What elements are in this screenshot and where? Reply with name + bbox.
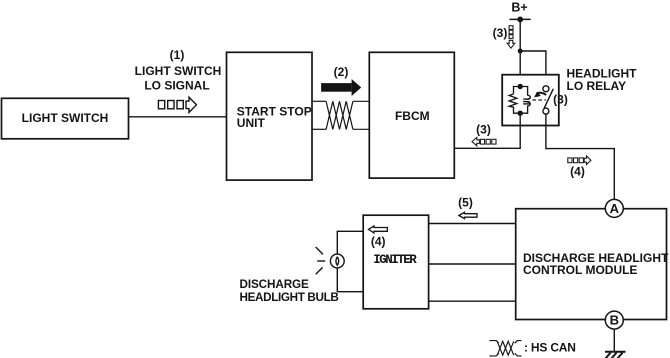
svg-text:B: B	[610, 313, 619, 328]
wire: relay switch to terminal A	[546, 114, 614, 200]
relay switch contacts	[543, 86, 553, 114]
relay coil node top	[518, 84, 523, 89]
wire: module to igniter (bottom)	[429, 300, 516, 302]
ground	[605, 352, 626, 358]
signal symbol (3) left: open arrow + squares	[472, 137, 496, 145]
svg-text:(2): (2)	[334, 65, 349, 79]
svg-text:UNIT: UNIT	[237, 116, 266, 130]
svg-text:DISCHARGE: DISCHARGE	[240, 278, 310, 291]
svg-text:LO RELAY: LO RELAY	[567, 79, 627, 93]
arrow (5) left outline	[459, 212, 477, 218]
light switch box	[2, 98, 129, 139]
svg-text:LO SIGNAL: LO SIGNAL	[144, 79, 209, 93]
wire: light switch to start stop unit	[129, 116, 227, 118]
svg-text:A: A	[610, 201, 620, 216]
relay coil node bottom	[518, 111, 523, 116]
svg-text:(4): (4)	[371, 235, 386, 249]
junction dot	[518, 49, 523, 54]
svg-text:(3): (3)	[493, 26, 508, 40]
label HEADLIGHT LO RELAY	[567, 67, 638, 93]
svg-text:IGNITER: IGNITER	[373, 253, 417, 267]
wire: bulb to igniter (bottom)	[337, 268, 363, 292]
legend: HS CAN twisted pair symbol	[489, 341, 521, 356]
svg-text:LIGHT SWITCH: LIGHT SWITCH	[135, 64, 222, 78]
svg-text:HEADLIGHT BULB: HEADLIGHT BULB	[240, 291, 339, 304]
signal symbol (1): squares + right open arrow	[158, 97, 196, 112]
svg-text:FBCM: FBCM	[395, 109, 430, 123]
igniter box	[363, 215, 428, 309]
svg-text:(1): (1)	[170, 48, 185, 62]
terminal B	[605, 311, 623, 329]
svg-text:(5): (5)	[458, 196, 473, 210]
HS CAN twisted pair: start stop unit to FBCM	[312, 101, 369, 129]
wire: B+ down to relay coil	[519, 19, 521, 86]
svg-text:CONTROL MODULE: CONTROL MODULE	[523, 263, 637, 277]
start stop unit box	[227, 52, 313, 180]
relay box	[502, 75, 559, 126]
terminal A	[605, 199, 623, 217]
relay coil-switch dashed link	[533, 99, 547, 101]
wire: relay coil to FBCM	[454, 113, 520, 148]
arrow (4) inside igniter	[369, 226, 388, 233]
arrow (2) thick black	[321, 79, 361, 96]
FBCM box	[369, 52, 454, 178]
label DISCHARGE HEADLIGHT BULB	[240, 278, 339, 304]
label (1) LIGHT SWITCH LO SIGNAL	[135, 48, 222, 93]
svg-text:(4): (4)	[570, 164, 585, 178]
signal symbol (3) vertical: squares + down arrow	[507, 26, 515, 49]
wire: module to igniter (middle)	[429, 263, 516, 265]
wire: terminal B to ground	[613, 329, 615, 351]
svg-text:LIGHT SWITCH: LIGHT SWITCH	[22, 111, 109, 125]
relay coil (resistor + coil with core)	[509, 87, 530, 114]
svg-text:: HS CAN: : HS CAN	[524, 341, 576, 355]
signal symbol (4): squares + right arrow	[568, 156, 591, 165]
discharge headlight control module box	[516, 209, 669, 320]
wire: bulb to igniter (top)	[337, 231, 363, 254]
wire: module to igniter (top)	[429, 223, 516, 225]
relay switch curved arrow	[538, 93, 547, 95]
discharge headlight bulb	[316, 247, 344, 274]
svg-text:(3): (3)	[553, 92, 568, 106]
B+ terminal	[510, 1, 531, 23]
svg-text:(3): (3)	[476, 123, 491, 137]
wire: junction to relay switch	[520, 51, 546, 86]
svg-text:B+: B+	[511, 1, 527, 15]
